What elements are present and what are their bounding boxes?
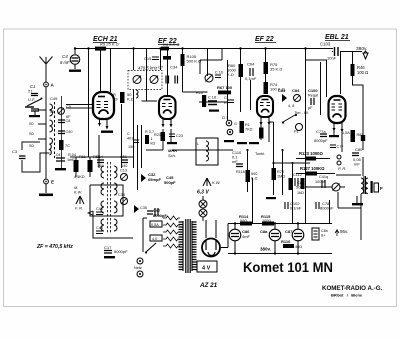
resistor R74	[264, 82, 285, 94]
capacitor C102	[285, 201, 302, 211]
svg-text:500pF: 500pF	[164, 180, 176, 185]
wire: drop at x133 to IF1	[133, 49, 135, 71]
svg-text:Regal: Regal	[308, 94, 318, 98]
svg-text:C8: C8	[66, 119, 71, 123]
node K.W. arrow	[203, 178, 221, 186]
svg-text:500: 500	[251, 172, 257, 176]
capacitor C8	[166, 76, 169, 84]
resistor R115	[261, 214, 274, 226]
node 380V arrow	[363, 51, 368, 59]
wire v x305	[305, 176, 307, 223]
ground det2	[237, 142, 247, 144]
wire osc column stem	[61, 96, 63, 168]
svg-text:C41q: C41q	[319, 175, 328, 179]
wire from T1 to IF2	[98, 135, 100, 157]
resistor R12	[88, 160, 93, 172]
resistor R60	[227, 63, 243, 77]
core L1 dashed	[54, 102, 56, 158]
svg-text:95v.: 95v.	[340, 229, 348, 234]
svg-text:P. R.: P. R.	[338, 166, 346, 171]
resistor R79	[272, 168, 277, 180]
svg-text:R.04: R.04	[68, 153, 76, 157]
label EF 22 third tube	[255, 36, 276, 43]
svg-text:4,5KΩ: 4,5KΩ	[74, 175, 85, 179]
svg-text:C4: C4	[62, 54, 68, 59]
svg-text:6F: 6F	[66, 115, 71, 119]
node P.R. terminals	[337, 155, 341, 159]
resistor R82	[301, 178, 305, 189]
svg-text:380v.: 380v.	[260, 247, 271, 252]
svg-text:ZF = 470,5 kHz: ZF = 470,5 kHz	[36, 244, 73, 250]
wire out bottom	[338, 192, 361, 240]
wire osc row	[70, 156, 133, 158]
wire mains left lead	[93, 211, 133, 238]
lamp 1	[199, 200, 207, 208]
svg-text:R79: R79	[277, 170, 284, 174]
svg-text:F. R.: F. R.	[75, 206, 83, 211]
wire: T4 plate drop	[340, 52, 342, 95]
trimmer C6	[58, 108, 65, 115]
ground mid bottom	[266, 197, 276, 199]
capacitor C87 electrolytic	[285, 224, 304, 253]
node bus junction dots	[74, 47, 307, 49]
wire T3 diode link	[269, 121, 274, 123]
wire y163 AGC to right	[274, 162, 311, 164]
wire x305 upper	[305, 60, 307, 176]
svg-text:C49: C49	[50, 96, 58, 101]
wires: mid vertical group	[90, 90, 163, 217]
svg-text:G 1: G 1	[222, 116, 228, 120]
svg-text:R11: R11	[79, 155, 86, 159]
capacitor C4 electrolytic	[70, 55, 80, 69]
resistor R81	[351, 130, 356, 142]
wire: right HT vertical	[353, 52, 364, 151]
svg-text:4, 8: 4, 8	[288, 104, 294, 108]
wire C97 drop	[143, 218, 147, 252]
wire: T4 grid feed box	[306, 60, 327, 97]
svg-text:KOMET-RADIO A.-G.: KOMET-RADIO A.-G.	[322, 285, 383, 292]
svg-text:C80: C80	[355, 147, 363, 152]
svg-text:8000pF: 8000pF	[314, 138, 328, 143]
coil L1 antenna primary	[50, 104, 53, 155]
capacitor C17	[104, 245, 128, 254]
wire: drop at x160	[160, 49, 162, 71]
svg-text:Netz: Netz	[134, 266, 142, 270]
capacitor C78	[316, 201, 334, 211]
cluster T2 cathode parts	[161, 132, 178, 144]
svg-text:BRGst / Biene: BRGst / Biene	[331, 293, 363, 298]
svg-text:R6 5 K.Ω: R6 5 K.Ω	[163, 42, 179, 47]
ground T1 cathode	[101, 131, 113, 133]
tube AZ21 rectifier	[202, 220, 228, 257]
wire: heater bus	[99, 60, 345, 223]
resistor ladder tap 245	[163, 216, 180, 220]
svg-text:7KΩ: 7KΩ	[245, 128, 253, 132]
node 95v arrow right	[0, 0, 1, 1]
wire mid v4	[141, 125, 143, 168]
svg-text:100 Ω: 100 Ω	[357, 70, 368, 75]
wire osc stems	[76, 157, 90, 177]
antenna	[40, 57, 53, 83]
maker KOMET-RADIO A.-G.	[322, 285, 383, 298]
svg-text:C40: C40	[66, 130, 73, 134]
wire feedback loop rectangle	[90, 185, 123, 216]
box 4V filament	[197, 261, 217, 272]
wire: T1 plate up	[100, 49, 102, 93]
capacitor C51	[120, 155, 128, 168]
svg-text:C23: C23	[176, 134, 183, 138]
wire: x320 drop	[320, 62, 322, 115]
tube T3 EF22	[257, 96, 273, 126]
svg-text:K.Ω: K.Ω	[227, 72, 234, 77]
node mains terminal 1	[137, 258, 143, 264]
svg-text:4,0: 4,0	[152, 237, 157, 241]
svg-text:pF: pF	[308, 106, 313, 110]
cluster between T2 and T3	[196, 49, 234, 112]
svg-text:Komet 101 MN: Komet 101 MN	[243, 260, 333, 275]
capacitor C8a	[58, 120, 65, 123]
tube T2 EF22	[159, 96, 176, 128]
wire mid v1	[121, 104, 123, 168]
IF transformer 2	[101, 162, 117, 233]
wire: drop to C4	[74, 49, 76, 55]
svg-text:1: 1	[151, 137, 153, 141]
capacitor C8n block	[312, 228, 328, 240]
resistor R118	[246, 170, 251, 182]
node G1 terminal	[226, 120, 232, 126]
resistor R46	[351, 64, 369, 76]
wire R127 row	[296, 173, 335, 175]
wire osc pad row	[200, 49, 222, 75]
fuse 4,0	[150, 235, 162, 241]
transformer primary winding	[179, 221, 184, 271]
resistor R114	[239, 214, 252, 226]
svg-text:C77: C77	[337, 145, 344, 149]
speaker	[371, 181, 373, 193]
svg-text:K.W.: K.W.	[74, 191, 82, 195]
lamp 2	[199, 209, 207, 217]
capacitor C8a electrolytic	[260, 224, 281, 253]
wire det vertical 1	[247, 150, 249, 192]
wire det verticals to filter bus	[253, 163, 293, 223]
capacitor C3 in loop	[12, 149, 26, 159]
wires B+ right verticals	[306, 176, 330, 223]
capacitor C64	[245, 62, 257, 82]
capacitor C77	[330, 145, 336, 148]
svg-text:C8n: C8n	[321, 229, 328, 233]
mid grid-line cluster labels	[127, 130, 155, 149]
oscillator cluster column	[55, 108, 72, 171]
wire: 380V feed segment	[340, 51, 362, 53]
resistor R5 on bus	[95, 47, 106, 51]
svg-text:6,3 V: 6,3 V	[197, 190, 209, 196]
capacitor C41	[322, 180, 325, 188]
wire: drop at x182 screen feed	[182, 49, 184, 93]
node A antenna terminal	[44, 82, 55, 87]
ground below E	[39, 184, 53, 196]
resistor R80	[289, 178, 294, 190]
svg-text:C100: C100	[308, 88, 318, 93]
svg-text:C3: C3	[12, 149, 18, 154]
label M KW left	[74, 186, 82, 195]
svg-text:C15: C15	[144, 56, 152, 61]
IF transformer 1	[128, 65, 178, 90]
resistor tick right line	[361, 135, 365, 141]
svg-text:C77a: C77a	[316, 129, 326, 134]
pot volume	[332, 183, 340, 191]
svg-text:7C: 7C	[65, 144, 70, 148]
resistor ladder tap 125	[163, 237, 180, 241]
svg-text:P1: P1	[294, 130, 299, 134]
wire: x227 drop	[227, 60, 229, 120]
wire: drop at x265 plate T3	[265, 49, 267, 93]
wire R123 row	[296, 158, 330, 160]
capacitor C44b	[96, 226, 103, 234]
svg-text:Sch.: Sch.	[168, 153, 176, 158]
wire lamps	[202, 196, 204, 221]
node det junctions	[246, 149, 293, 164]
capacitor C81 mid	[155, 208, 158, 216]
resistor R75	[264, 62, 283, 74]
svg-text:1kΩ: 1kΩ	[297, 191, 304, 195]
ground det3	[249, 142, 259, 144]
wire filter bottom bus	[228, 253, 332, 255]
svg-text:mF: mF	[232, 159, 238, 164]
box oscillator coil K.W.	[196, 138, 218, 165]
ground det1	[224, 140, 234, 142]
svg-text:470,5 kHz: 470,5 kHz	[138, 66, 158, 71]
capacitor C16	[215, 75, 221, 78]
svg-text:150: 150	[128, 145, 134, 149]
label EBL 21	[325, 34, 350, 41]
svg-text:R116: R116	[281, 239, 291, 244]
transformer core	[186, 219, 190, 273]
svg-text:65mpF: 65mpF	[148, 177, 161, 182]
wire: T3 grid left	[250, 80, 252, 110]
capacitor C1	[28, 84, 38, 96]
svg-text:10nF: 10nF	[327, 56, 337, 61]
ground T2	[167, 142, 177, 144]
svg-text:40Ω: 40Ω	[295, 245, 302, 249]
capacitor C44	[96, 207, 103, 215]
svg-text:C35: C35	[140, 206, 147, 210]
capacitor C32	[141, 172, 161, 182]
capacitor C45	[164, 175, 176, 185]
resistor ladder tap 110	[163, 244, 180, 248]
svg-text:C64: C64	[247, 62, 255, 67]
svg-text:R123 1000Ω: R123 1000Ω	[299, 151, 323, 156]
svg-text:C7: C7	[158, 65, 164, 70]
svg-text:K.Ω: K.Ω	[127, 97, 134, 102]
pot P1	[296, 124, 303, 131]
capacitor C8b	[58, 131, 65, 134]
svg-text:500 K.Ω: 500 K.Ω	[187, 59, 202, 64]
wire grid row y102	[199, 101, 228, 103]
svg-text:4mF: 4mF	[242, 234, 251, 239]
svg-text:K.W.: K.W.	[212, 180, 221, 185]
fuse 0,5A	[150, 221, 162, 227]
svg-text:S0: S0	[29, 132, 34, 136]
power supply filter row	[228, 214, 332, 255]
wire: x207 drop	[207, 49, 209, 77]
coil small T2 grid	[136, 90, 138, 98]
node E earth terminal	[44, 179, 54, 184]
node arrow mains left	[88, 211, 93, 215]
svg-text:380v.: 380v.	[356, 46, 367, 52]
ground osc column	[55, 168, 66, 170]
wire filter top bus	[228, 223, 332, 225]
resistor R45	[240, 121, 245, 133]
ground below C4	[69, 70, 81, 72]
switch mains	[146, 243, 156, 252]
svg-text:0,5A: 0,5A	[151, 223, 159, 227]
wire T2 cathode down	[162, 129, 164, 150]
wire volume pot row	[305, 186, 345, 188]
svg-text:19: 19	[113, 97, 118, 102]
svg-text:4 V: 4 V	[202, 266, 211, 272]
svg-text:C: C	[127, 132, 130, 136]
core IF2 dashed	[108, 162, 111, 233]
right mid extra parts	[293, 145, 343, 195]
capacitor C86 electrolytic	[229, 224, 250, 253]
svg-text:-04: -04	[55, 153, 61, 157]
wire: T2 plate up	[167, 49, 169, 97]
wire T3 pins down	[261, 124, 269, 142]
resistor ladder tap 145	[163, 230, 180, 234]
svg-text:0,1mF: 0,1mF	[245, 76, 257, 81]
svg-text:R12: R12	[93, 155, 100, 159]
svg-text:U.F.: U.F.	[28, 97, 35, 102]
tube T4 EBL21	[329, 96, 346, 133]
svg-text:EF 22: EF 22	[255, 36, 274, 43]
resistor R11	[74, 160, 79, 172]
node G2 terminal	[227, 129, 233, 135]
T2 cathode labels	[154, 133, 183, 138]
svg-text:C87: C87	[285, 229, 293, 234]
wire v x329	[329, 200, 331, 223]
svg-text:R1: R1	[245, 123, 250, 127]
coil taps left	[38, 110, 46, 139]
wire screen row y92	[183, 91, 208, 93]
ground out transformer	[352, 203, 363, 205]
capacitor C103	[332, 47, 338, 56]
svg-text:8000pF: 8000pF	[320, 206, 334, 211]
output transformer	[336, 175, 383, 240]
wire: T2 grid line	[142, 96, 158, 101]
det extra labels	[222, 116, 265, 174]
svg-text:140: 140	[121, 164, 127, 168]
svg-text:1,5A: 1,5A	[342, 131, 350, 135]
svg-text:R127 100KΩ: R127 100KΩ	[300, 166, 325, 171]
svg-text:S0: S0	[29, 144, 34, 148]
svg-text:K.Ω: K.Ω	[251, 177, 258, 181]
resistor R116	[281, 239, 302, 249]
capacitor C14	[96, 155, 104, 168]
wire det vertical 3	[282, 150, 284, 195]
tone switch cluster	[278, 88, 318, 134]
coil IF2 primary	[101, 166, 104, 231]
svg-text:E: E	[51, 180, 54, 185]
svg-text:S0: S0	[29, 122, 34, 126]
svg-text:mF: mF	[354, 162, 360, 167]
wire mid v2	[133, 90, 135, 169]
svg-text:50: 50	[50, 110, 54, 114]
mains section	[88, 196, 228, 289]
coil IF2 secondary	[114, 166, 117, 231]
detector cluster	[224, 120, 293, 195]
svg-text:401: 401	[127, 137, 133, 141]
wire T4 pins down	[334, 130, 342, 152]
svg-text:C9: C9	[66, 105, 71, 109]
svg-text:C34: C34	[170, 65, 178, 70]
capacitor C35	[134, 205, 147, 213]
svg-text:G: G	[234, 122, 237, 126]
tube T1 ECH21	[93, 92, 114, 130]
wire: T1 grid up	[110, 49, 112, 93]
label ECH 21	[93, 36, 119, 47]
svg-text:C: C	[224, 96, 227, 100]
wire: main B+ top bus	[75, 48, 333, 50]
label MHR switch	[168, 148, 177, 158]
svg-text:R5 25 K.Ω: R5 25 K.Ω	[100, 42, 119, 47]
resistor R105 screen	[181, 54, 202, 66]
svg-text:C8a: C8a	[260, 229, 268, 234]
capacitor C-04	[56, 158, 65, 161]
wire: IF1 drop x146	[146, 49, 148, 97]
wire mid v3	[137, 125, 139, 190]
svg-text:kΩ: kΩ	[151, 142, 156, 146]
capacitor C2	[31, 109, 39, 115]
trimmer C34b	[118, 193, 128, 205]
svg-text:8 mF: 8 mF	[60, 60, 70, 65]
svg-text:R118: R118	[236, 170, 245, 174]
label EF 22 second tube	[158, 38, 179, 47]
svg-text:EBL 21: EBL 21	[325, 34, 349, 41]
svg-text:C 18: C 18	[208, 96, 216, 100]
wire detector row	[146, 149, 233, 151]
wire: drop at x88 to oscillator	[88, 49, 90, 158]
capacitor C112	[295, 178, 298, 186]
wire: drop at x240	[240, 49, 242, 113]
ground mid cluster	[209, 110, 219, 112]
svg-text:M.: M.	[74, 186, 78, 190]
ground out1	[329, 135, 339, 137]
svg-text:5000pF: 5000pF	[114, 249, 128, 254]
wire det vertical 2	[273, 122, 275, 195]
node mains terminal 2	[137, 271, 143, 277]
resistor R6 on bus	[161, 47, 169, 51]
resistor ladder tap 220	[163, 223, 180, 227]
resistor R7	[59, 140, 64, 150]
switch U.F.	[25, 97, 43, 107]
switch tone	[283, 115, 295, 122]
trimmer C7	[133, 76, 141, 84]
svg-text:C17: C17	[104, 245, 112, 250]
svg-text:1MΩ: 1MΩ	[277, 175, 285, 179]
svg-text:R67 100: R67 100	[217, 85, 233, 90]
capacitor C97	[147, 208, 167, 218]
resistor T3 cathode	[260, 128, 264, 138]
resistor R21	[161, 132, 166, 141]
ground IF2 bottom	[104, 256, 115, 258]
svg-text:L: L	[197, 142, 199, 146]
svg-text:C34: C34	[118, 193, 125, 197]
svg-text:8000pF: 8000pF	[153, 213, 167, 218]
svg-text:C84: C84	[292, 88, 300, 93]
svg-text:AZ 21: AZ 21	[199, 282, 218, 289]
svg-text:C83: C83	[278, 88, 286, 93]
wire antenna down	[45, 87, 47, 179]
